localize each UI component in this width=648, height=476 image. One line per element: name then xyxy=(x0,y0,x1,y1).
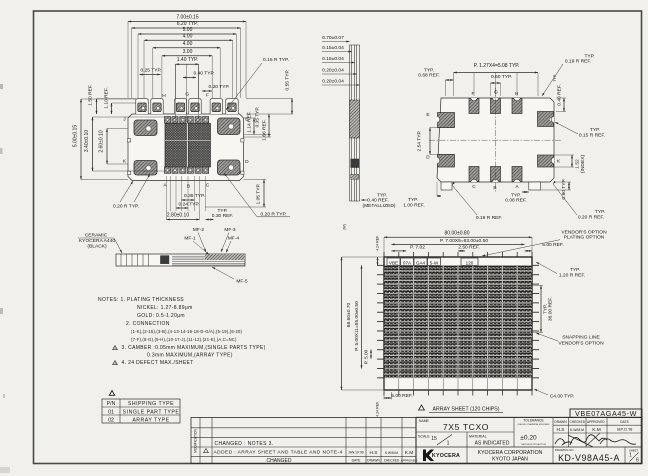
bottom view: castellation notches xyxy=(471,98,478,101)
svg-text:0.25 TYP.: 0.25 TYP. xyxy=(140,68,161,74)
svg-text:0.15 R TYP.: 0.15 R TYP. xyxy=(263,57,289,63)
svg-text:H.S: H.S xyxy=(557,427,565,433)
svg-text:1.05 TYP.: 1.05 TYP. xyxy=(256,183,262,204)
svg-text:NICKEL: 1.27-8.89μm: NICKEL: 1.27-8.89μm xyxy=(137,305,193,311)
svg-text:4.24 REF.: 4.24 REF. xyxy=(376,401,380,417)
svg-text:0.15±0.04: 0.15±0.04 xyxy=(322,45,344,51)
svg-text:TYP.: TYP. xyxy=(570,267,580,273)
top view: small pad row below block xyxy=(164,167,170,173)
svg-text:0.19 R REF.: 0.19 R REF. xyxy=(565,59,591,65)
svg-text:5.00 REF.: 5.00 REF. xyxy=(391,393,412,399)
array row 12 xyxy=(384,369,532,377)
svg-text:01: 01 xyxy=(108,409,114,415)
svg-text:0.40 TYP.: 0.40 TYP. xyxy=(193,71,214,77)
svg-text:SHIPPING TYPE: SHIPPING TYPE xyxy=(128,401,174,407)
side strip seal section xyxy=(351,159,359,168)
svg-text:TYP.: TYP. xyxy=(595,209,605,215)
svg-text:36.00 REF.: 36.00 REF. xyxy=(548,297,554,321)
svg-text:K.W/M.M: K.W/M.M xyxy=(385,451,398,455)
svg-text:0.20 R TYP.: 0.20 R TYP. xyxy=(113,204,139,210)
svg-text:0.35 TYP.: 0.35 TYP. xyxy=(184,193,205,199)
svg-text:0.08 REF.: 0.08 REF. xyxy=(505,198,526,204)
svg-text:P. 1.27X4=5.08 TYP.: P. 1.27X4=5.08 TYP. xyxy=(474,63,520,69)
array row 4 xyxy=(384,294,532,302)
svg-text:0.3mm MAXIMUM,(ARRAY TYPE): 0.3mm MAXIMUM,(ARRAY TYPE) xyxy=(147,353,233,359)
svg-text:3.40±0.10: 3.40±0.10 xyxy=(84,130,90,152)
svg-text:CHANGED : NOTES 3.: CHANGED : NOTES 3. xyxy=(215,441,274,447)
svg-text:1.00 REF.: 1.00 REF. xyxy=(403,203,424,209)
svg-text:MF-4: MF-4 xyxy=(228,236,240,242)
svg-text:P. 7.00X9=63.00±0.50: P. 7.00X9=63.00±0.50 xyxy=(440,238,488,244)
svg-text:SEP.21.'98: SEP.21.'98 xyxy=(617,428,633,432)
svg-text:ARRAY SHEET (120 CHIPS): ARRAY SHEET (120 CHIPS) xyxy=(433,407,500,413)
array row 11 xyxy=(384,360,532,368)
svg-text:TYP.: TYP. xyxy=(590,127,600,133)
svg-text:2. CONNECTION: 2. CONNECTION xyxy=(126,321,170,327)
svg-text:3.00: 3.00 xyxy=(183,49,193,55)
svg-text:KYOCERA: KYOCERA xyxy=(432,453,460,459)
svg-text:1.52: 1.52 xyxy=(575,159,581,169)
svg-text:KD-V98A45-A: KD-V98A45-A xyxy=(558,453,620,463)
svg-text:0.35 TYP.: 0.35 TYP. xyxy=(255,107,261,128)
svg-text:TYP.: TYP. xyxy=(408,197,418,203)
bottom view: top edge pads F G H xyxy=(469,99,479,114)
svg-text:1: 1 xyxy=(629,453,632,459)
svg-text:0.40 REF.: 0.40 REF. xyxy=(367,198,388,204)
svg-text:GOLD: 0.5-1.20μm: GOLD: 0.5-1.20μm xyxy=(137,313,185,319)
svg-text:0.20±0.04: 0.20±0.04 xyxy=(322,68,344,74)
top view: corner pad top-right xyxy=(218,118,241,135)
side strip hatched section xyxy=(350,100,360,138)
bottom view: centerlines xyxy=(429,139,562,141)
svg-text:E: E xyxy=(426,112,429,118)
svg-text:7.00±0.15: 7.00±0.15 xyxy=(176,15,198,21)
svg-text:B: B xyxy=(493,185,496,191)
svg-text:MATERIAL: MATERIAL xyxy=(469,435,487,439)
svg-text:D: D xyxy=(245,159,249,165)
svg-text:CHANGED: CHANGED xyxy=(266,458,291,464)
svg-text:1: 1 xyxy=(447,441,450,447)
svg-text:0.55 TYP.: 0.55 TYP. xyxy=(285,69,291,90)
svg-text:H: H xyxy=(515,91,519,97)
svg-text:F: F xyxy=(206,93,209,99)
top view: package body outline xyxy=(128,114,244,181)
svg-text:(W): (W) xyxy=(343,224,347,230)
array row 8 xyxy=(384,332,532,340)
svg-text:VENDOR'S OPTION: VENDOR'S OPTION xyxy=(561,230,607,236)
svg-text:ADDED : ARRAY SHEET AND TABLE: ADDED : ARRAY SHEET AND TABLE AND NOTE-4 xyxy=(214,450,343,456)
array sheet caption xyxy=(419,405,425,410)
svg-text:SCALE: SCALE xyxy=(418,435,430,439)
svg-text:MF-5: MF-5 xyxy=(236,279,248,285)
svg-text:C: C xyxy=(206,183,210,189)
svg-text:(BLACK): (BLACK) xyxy=(87,244,107,250)
kyocera logo xyxy=(423,450,434,462)
side view vertical strip xyxy=(349,45,351,201)
svg-text:15: 15 xyxy=(431,436,437,442)
svg-text:DRAWING NO.: DRAWING NO. xyxy=(555,448,574,452)
svg-text:KYOCERA A440: KYOCERA A440 xyxy=(79,238,115,244)
array column ticks top/bottom xyxy=(383,252,385,257)
horizontal strip body xyxy=(116,254,245,266)
svg-text:1.14 REF.: 1.14 REF. xyxy=(247,111,253,132)
svg-text:0.15 R REF.: 0.15 R REF. xyxy=(579,133,605,139)
bottom extension lines xyxy=(166,176,168,211)
bottom view: package body outline xyxy=(437,98,554,182)
svg-text:5.00±0.15: 5.00±0.15 xyxy=(73,125,79,147)
svg-text:ARRAY TYPE: ARRAY TYPE xyxy=(132,418,169,424)
svg-text:6: 6 xyxy=(636,458,639,464)
svg-text:NOTES: 1. PLATING THICKNESS: NOTES: 1. PLATING THICKNESS xyxy=(98,297,184,303)
revision triangle above table xyxy=(109,391,114,396)
svg-text:C4.00 TYP.: C4.00 TYP. xyxy=(550,394,575,400)
svg-text:68.60±0.70: 68.60±0.70 xyxy=(346,303,352,328)
array row 3 xyxy=(384,285,532,293)
svg-text:0.20 TYP.: 0.20 TYP. xyxy=(208,84,229,90)
svg-text:P. 5.00: P. 5.00 xyxy=(364,349,370,364)
svg-text:1.20 R REF.: 1.20 R REF. xyxy=(559,272,585,278)
svg-text:DRAWN: DRAWN xyxy=(367,459,380,463)
top view: extension verticals to body xyxy=(175,64,177,122)
svg-text:AS INDICATED: AS INDICATED xyxy=(475,441,510,447)
array row 1 xyxy=(384,266,532,274)
svg-text:MF-1: MF-1 xyxy=(184,236,196,242)
signatures xyxy=(555,439,572,445)
svg-text:DATE: DATE xyxy=(620,420,629,424)
svg-text:KYOTO JAPAN: KYOTO JAPAN xyxy=(492,456,528,462)
svg-text:1.50 REF.: 1.50 REF. xyxy=(88,84,94,105)
array row 2 xyxy=(384,275,532,283)
svg-text:MF-2: MF-2 xyxy=(193,227,205,233)
svg-text:K.M: K.M xyxy=(405,450,414,456)
svg-text:CERAMIC: CERAMIC xyxy=(85,233,108,239)
svg-text:0.19 R REF.: 0.19 R REF. xyxy=(476,215,502,221)
svg-text:P/N: P/N xyxy=(107,401,116,407)
svg-text:H.S: H.S xyxy=(370,450,378,456)
svg-text:K.W/M.M: K.W/M.M xyxy=(570,428,584,432)
strip dark chip xyxy=(161,256,169,264)
bottom view: bottom left tab xyxy=(441,182,452,190)
bottom view: bottom edge pads C B A xyxy=(469,167,479,182)
svg-text:0.20±0.04: 0.20±0.04 xyxy=(322,79,344,85)
svg-text:SINGLE PART TYPE: SINGLE PART TYPE xyxy=(123,409,180,415)
svg-text:MODIFICATION: MODIFICATION xyxy=(194,429,198,453)
top view: small pad row above block xyxy=(164,117,170,124)
scan artifacts left margin xyxy=(0,84,3,89)
svg-text:C: C xyxy=(472,184,476,190)
svg-text:1.40 TYP.: 1.40 TYP. xyxy=(177,57,199,63)
title block outline xyxy=(416,417,642,463)
top view: pin tip pads xyxy=(138,103,146,112)
svg-text:1.66 REF.: 1.66 REF. xyxy=(262,119,268,140)
svg-text:P. 7.02: P. 7.02 xyxy=(410,244,425,250)
svg-text:0.70±0.07: 0.70±0.07 xyxy=(322,35,344,41)
bottom view: left edge pad D xyxy=(438,155,455,168)
svg-text:5.00: 5.00 xyxy=(183,27,193,33)
svg-text:80.00±0.80: 80.00±0.80 xyxy=(445,231,470,237)
svg-text:G: G xyxy=(494,90,498,96)
svg-text:0.68 REF.: 0.68 REF. xyxy=(418,73,439,79)
svg-text:(INDEX): (INDEX) xyxy=(580,155,586,174)
svg-text:0.40 REF.: 0.40 REF. xyxy=(557,84,563,105)
svg-text:4. 24 DEFECT MAX./SHEET: 4. 24 DEFECT MAX./SHEET xyxy=(122,360,194,366)
array row 9 xyxy=(384,341,532,349)
shipping type table xyxy=(102,399,180,423)
svg-text:3. CAMBER :0.05mm MAXIMUM,(SIN: 3. CAMBER :0.05mm MAXIMUM,(SINGLE PARTS … xyxy=(122,345,266,351)
top view: edge castellation notches xyxy=(128,139,131,142)
bottom view: right edge pad J xyxy=(538,112,554,127)
svg-text:0.30 REF.: 0.30 REF. xyxy=(212,213,233,219)
array sheet header boxes xyxy=(387,258,400,266)
title block inner lines xyxy=(416,431,514,433)
svg-text:PLATING OPTION: PLATING OPTION xyxy=(564,235,605,241)
svg-text:0.80 TYP.: 0.80 TYP. xyxy=(561,178,567,199)
svg-text:H: H xyxy=(162,93,166,99)
svg-text:±0.20: ±0.20 xyxy=(520,434,537,441)
top view: pin leads outline above body xyxy=(136,99,148,114)
svg-text:TOLERANCE: TOLERANCE xyxy=(523,419,544,423)
svg-text:CHECKED: CHECKED xyxy=(570,420,586,424)
svg-text:THRU HOLE PROJECTION: THRU HOLE PROJECTION xyxy=(521,444,547,446)
svg-text:UNLESS OTHERWISE SPECIFIED: UNLESS OTHERWISE SPECIFIED xyxy=(518,424,550,426)
svg-text:2.60±0.10: 2.60±0.10 xyxy=(99,130,105,152)
strip internal divisions xyxy=(120,254,122,266)
svg-text:4.24 REF.: 4.24 REF. xyxy=(376,235,380,251)
strip hatch right xyxy=(205,254,245,260)
strip metallization lines xyxy=(172,255,245,257)
top view: corner pad K (bottom-left) xyxy=(134,161,157,176)
svg-text:DATE: DATE xyxy=(352,459,362,463)
svg-text:P. 5.00X11=55.00±0.50: P. 5.00X11=55.00±0.50 xyxy=(354,301,360,351)
svg-text:7X5 TCXO: 7X5 TCXO xyxy=(443,422,489,432)
svg-text:1.10 REF.: 1.10 REF. xyxy=(104,87,110,108)
svg-text:B: B xyxy=(187,184,190,190)
svg-text:07A: 07A xyxy=(403,260,412,265)
modification table xyxy=(191,417,416,463)
svg-text:DRAWN: DRAWN xyxy=(554,420,567,424)
svg-text:2.80±0.10: 2.80±0.10 xyxy=(167,213,189,219)
bottom view: left edge pad E xyxy=(438,113,455,128)
array row 5 xyxy=(384,304,532,312)
svg-text:GA4: GA4 xyxy=(416,260,426,265)
svg-text:G: G xyxy=(185,92,189,98)
svg-text:0.15±0.04: 0.15±0.04 xyxy=(322,56,344,62)
svg-text:SNAPPING LINE: SNAPPING LINE xyxy=(562,335,600,341)
part number box xyxy=(570,409,642,417)
svg-text:D: D xyxy=(426,155,430,161)
array row 6 xyxy=(384,313,532,321)
svg-text:0.20 R REF.: 0.20 R REF. xyxy=(578,215,604,221)
svg-text:MF-3: MF-3 xyxy=(224,227,236,233)
array row boundary snapping ticks xyxy=(377,264,384,266)
svg-text:VENDOR'S OPTION: VENDOR'S OPTION xyxy=(558,340,604,346)
svg-text:APPROVED: APPROVED xyxy=(587,420,605,424)
svg-text:K.M: K.M xyxy=(592,427,601,433)
svg-text:CHECKED: CHECKED xyxy=(384,459,400,463)
svg-text:2.54 TYP.: 2.54 TYP. xyxy=(417,130,423,151)
svg-text:KYOCERA CORPORATION: KYOCERA CORPORATION xyxy=(478,450,543,456)
svg-text:2.50 REF.: 2.50 REF. xyxy=(458,244,479,250)
svg-text:VBE: VBE xyxy=(389,260,398,265)
svg-text:(7-F),(8-G),(9-H),(10-17-J),(1: (7-F),(8-G),(9-H),(10-17-J),(11-12),(21-… xyxy=(131,337,237,342)
note triangle markers xyxy=(113,346,118,350)
svg-text:0.24 TYP.: 0.24 TYP. xyxy=(178,202,199,208)
bottom view: bottom index tab xyxy=(529,182,541,190)
svg-text:JAN.19.'99: JAN.19.'99 xyxy=(348,451,364,455)
svg-text:5-W: 5-W xyxy=(430,260,439,265)
svg-text:02: 02 xyxy=(108,418,114,424)
top view: corner pad J (top-left) xyxy=(134,120,157,136)
svg-text:NAME: NAME xyxy=(419,419,430,423)
svg-text:0.60 TYP.: 0.60 TYP. xyxy=(491,74,512,80)
array row 7 xyxy=(384,322,532,330)
array sheet outline xyxy=(384,257,532,390)
top view: center metallized block xyxy=(165,124,186,168)
svg-text:(1-K),(2-15),(3-B),(4-13-14-16: (1-K),(2-15),(3-B),(4-13-14-16-18-D-G/A)… xyxy=(131,329,242,334)
bottom view: right edge pad K xyxy=(538,155,554,167)
svg-text:(METALLIZED): (METALLIZED) xyxy=(362,203,395,209)
top view: corner pad D (bottom-right) xyxy=(218,160,241,175)
svg-text:4.00: 4.00 xyxy=(183,41,193,47)
array row 10 xyxy=(384,350,532,358)
svg-text:120: 120 xyxy=(466,260,474,265)
svg-text:4.00: 4.00 xyxy=(183,33,193,39)
svg-text:TYP.: TYP. xyxy=(553,74,557,82)
